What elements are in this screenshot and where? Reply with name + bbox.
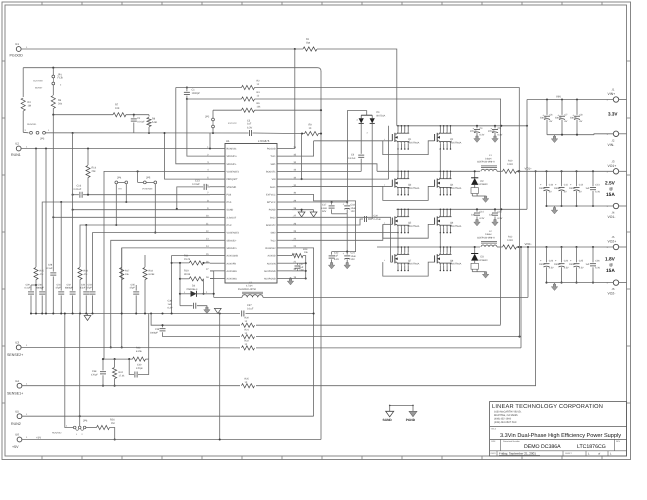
svg-text:15A: 15A [606,192,615,198]
pin 28 PGND [277,209,292,211]
svg-text:DATE: DATE [491,452,497,455]
svg-text:ITH1: ITH1 [227,201,233,204]
wire VO1 sense riser x519.5 [519,171,521,336]
svg-text:6800pF: 6800pF [36,287,44,290]
capacitor C31 [60,202,62,291]
ground below C14 [474,220,480,226]
svg-text:JP3: JP3 [40,138,45,141]
svg-text:100uF: 100uF [569,263,576,266]
wire SW2 pin25 line to row3 source rail [292,232,398,234]
svg-text:DEMO DC386A: DEMO DC386A [524,444,561,450]
svg-text:E3: E3 [16,341,20,345]
svg-text:VIN: VIN [272,178,276,181]
svg-text:VO1-: VO1- [608,215,616,219]
svg-text:4: 4 [384,138,385,141]
transistor Q3 [397,171,399,176]
svg-text:330uF: 330uF [555,117,562,120]
wire PGND pin28 line [292,209,314,211]
svg-text:4.7uH: 4.7uH [246,285,253,288]
pin 14 SENSE2+ [210,247,225,249]
wire FCB rail y114.7 [53,114,113,116]
diode D4 CMDSH-3 [180,293,191,295]
wire RUN2 E5 line [22,415,314,417]
svg-text:JP5: JP5 [146,176,151,179]
svg-text:J3: J3 [612,160,615,164]
svg-text:EXTVCC: EXTVCC [228,122,237,125]
svg-text:Friday, September 21, 2001: Friday, September 21, 2001 [499,452,536,456]
svg-text:SENSE1+: SENSE1+ [7,391,23,395]
svg-text:SW2: SW2 [270,232,276,235]
capacitor C22 [331,252,333,255]
svg-text:VOSENSE2: VOSENSE2 [227,232,240,235]
capacitor C11 [560,170,562,172]
pin 8 ITH1 [210,201,225,203]
wire gate feed [383,223,393,225]
svg-text:BAT54A: BAT54A [377,115,386,118]
title block [490,402,627,457]
svg-text:2.5V: 2.5V [549,267,554,270]
svg-text:T-G1: T-G1 [270,155,276,158]
resistor R26 [86,427,97,429]
svg-text:C28: C28 [48,264,53,267]
wire x219.7 riser 5V [219,314,221,440]
svg-text:3.3V: 3.3V [608,112,618,117]
resistor R5 [242,108,255,112]
svg-text:FDS7764A: FDS7764A [408,141,420,144]
svg-text:BOOST1: BOOST1 [266,170,276,173]
connector J2 VIN- [613,131,618,136]
svg-text:10V: 10V [351,258,356,261]
ground below C4 [474,136,480,142]
pin 25 SW2 [277,232,292,234]
wire comp array rail y313.5 [31,313,240,315]
svg-text:SENSE1+: SENSE1+ [227,155,238,158]
pin 11 ITH2 [210,224,225,226]
wire FREQSET pin5 riser [165,133,211,179]
transistor Q4 [439,171,441,176]
pin 23 RUN/SS2 [277,247,292,249]
svg-text:FDS7764A: FDS7764A [450,187,462,190]
svg-text:6.3V: 6.3V [498,134,503,137]
svg-text:B-G2: B-G2 [270,216,276,219]
svg-text:50V: 50V [322,210,327,213]
wire gate feed [292,185,392,187]
pin 33 BOOST1 [277,170,292,172]
resistor R21 [242,335,255,339]
svg-text:C15: C15 [498,210,503,213]
wire AUXVIN pin21 line [292,262,306,264]
wire BOOST1 pin33 line [292,170,361,172]
wire R23 divider rail [104,358,133,360]
capacitor C12 [575,170,577,172]
svg-text:FDS7764A: FDS7764A [450,141,462,144]
svg-text:PGND: PGND [269,209,276,212]
pin 34 SW1 [277,163,292,165]
capacitor C14 row3 bypass [476,209,478,211]
op-amp U1 LTC1876 controller IC [225,144,277,284]
svg-text:1uF: 1uF [247,123,252,126]
svg-text:SENSE2+: SENSE2+ [7,353,23,357]
svg-text:1M: 1M [28,104,31,107]
svg-text:CUSTOM: CUSTOM [33,80,43,83]
svg-text:VO2-: VO2- [608,292,616,296]
wire SENSE1+ pin2 riser [187,99,210,156]
capacitor C10 [545,170,547,172]
wire 3.3VOUT pin10 line [53,216,210,218]
resistor R9 [305,132,319,136]
svg-text:UPS840: UPS840 [479,183,489,186]
svg-text:4V: 4V [549,190,552,193]
svg-text:FDS7764A: FDS7764A [450,225,462,228]
wire row3 to SW2 verticals [397,233,399,247]
wire SW2 rail [377,246,480,248]
ground below C22 [328,263,334,269]
connector J6 VO2- [613,280,618,285]
wire VO2 rail to J5 [518,246,613,248]
svg-text:(408) 432-1900: (408) 432-1900 [494,418,512,421]
ground symbol SGND [389,405,391,411]
inductor L2 [481,245,497,247]
wire gate loop to second fet [383,186,435,200]
wire INTVCC riser to D1 anchor [347,111,366,202]
wire INTVCC pin29 line [292,201,347,203]
svg-text:JP4: JP4 [117,176,122,179]
transistor Q1 [397,126,399,131]
svg-text:1uF: 1uF [586,263,591,266]
svg-text:FSLB2520-4R7M: FSLB2520-4R7M [238,288,256,291]
svg-text:E1: E1 [16,42,20,46]
svg-text:C25: C25 [579,259,584,262]
svg-text:47pF: 47pF [56,287,62,290]
wire FCB pin7 line [83,194,210,196]
capacitor C16 series on FCB [79,192,81,198]
svg-text:INTVCC: INTVCC [267,201,276,204]
wire gate loop to second fet [383,141,435,155]
pin 5 FREQSET [210,178,225,180]
jumper JP6 [65,314,74,428]
svg-text:0.47uF: 0.47uF [374,218,382,221]
wire RUN/SS2 pin23 to RUN2 line [292,248,314,416]
resistor R6 [52,85,54,95]
svg-text:C29: C29 [26,283,31,286]
pin 27 B-G2 [277,216,292,218]
wire L3 output to right nest [263,296,528,298]
svg-text:6.3V: 6.3V [595,267,600,270]
wire SW1 pin34 jog [292,164,377,172]
wire TG1 gate route [292,141,314,156]
svg-text:C31: C31 [57,283,62,286]
ground pgnd open 1 [301,210,303,212]
resistor R2 [242,85,255,89]
diode D1 BAT54A dual [361,114,372,116]
svg-text:1uF: 1uF [471,214,476,217]
wire D1 cathode right down [371,123,373,219]
wire intvcc rail drop to extvcc rail [346,214,348,252]
pin 3 SENSE1- [210,163,225,165]
svg-text:10K: 10K [115,107,120,110]
svg-text:AUXPGND: AUXPGND [264,278,276,281]
capacitor C21 [346,252,348,255]
svg-text:FREQSET: FREQSET [227,178,239,181]
resistor R20 [242,323,255,327]
resistor R25 [242,384,255,388]
wire R21 line VO1 sense [163,336,241,338]
jumper JP1 FCB select [52,68,54,75]
wire row1 to SW1 verticals [397,149,399,171]
transistor Q2 [439,126,441,131]
svg-text:4: 4 [384,183,385,186]
svg-text:E4: E4 [16,379,20,383]
terminal E3 [16,345,21,350]
ground legend bracket [390,404,413,406]
ground auxpgnd gray arrow [287,279,293,285]
svg-text:100uF: 100uF [539,263,546,266]
svg-text:SW1: SW1 [270,163,276,166]
resistor R8 [148,115,150,117]
svg-text:SENSE2-: SENSE2- [227,239,237,242]
svg-text:LINEAR TECHNOLOGY CORPORATION: LINEAR TECHNOLOGY CORPORATION [492,404,603,410]
svg-text:0.01uF: 0.01uF [137,120,145,123]
pin 18 AUXSWG [210,277,225,279]
capacitor C25 [575,246,577,248]
svg-text:J2: J2 [612,138,615,142]
svg-text:4V: 4V [564,190,567,193]
capacitor C37 series on rail [241,311,243,317]
capacitor C6 [546,98,548,100]
resistor R18b array [144,255,146,267]
capacitor C15 row3 bypass [494,209,496,211]
svg-text:AUXSWG: AUXSWG [227,278,238,281]
wire gate loop to second fet [383,224,435,238]
svg-text:E6: E6 [16,433,20,437]
capacitor C9 [358,154,364,156]
wire SENSE1+ E4 line [22,385,240,387]
svg-text:C39: C39 [155,328,160,331]
resistor R14 [87,149,89,166]
resistor R15 [35,149,37,268]
wire STBYMD pin6 line with C13 [207,186,210,188]
svg-text:470pF: 470pF [136,367,143,370]
svg-text:VOSENSE1: VOSENSE1 [227,170,240,173]
wire AUXSWG pins 17 18 join [210,270,214,272]
capacitor C20 [363,216,365,222]
svg-text:VO2+: VO2+ [608,240,617,244]
capacitor C30 [41,267,43,291]
pin 31 B-G1 [277,186,292,188]
svg-text:U1: U1 [226,139,230,143]
pin 35 T-G1 [277,155,292,157]
wire SENSE2+ pin14 line [122,248,210,348]
ground dark arrow aux [204,307,210,313]
svg-text:6.3V: 6.3V [480,134,485,137]
svg-text:BOOST2: BOOST2 [266,224,276,227]
capacitor C13 [592,170,594,172]
svg-text:0.1uF: 0.1uF [247,307,254,310]
diode D2 UPS840 [474,171,476,178]
wire SENSE2+ E3 line [21,346,240,349]
svg-text:TITLE: TITLE [491,428,497,431]
svg-text:C10: C10 [549,183,554,186]
svg-text:0.8uH: 0.8uH [485,157,492,160]
svg-text:VO2+: VO2+ [525,242,533,246]
wire gate feed [314,140,393,142]
svg-text:AUXSD: AUXSD [267,255,275,258]
svg-text:C24: C24 [564,259,569,262]
svg-text:RUN/SS1: RUN/SS1 [227,148,238,151]
svg-text:RUN/SS1: RUN/SS1 [27,123,37,126]
pin 26 BOOST2 [277,224,292,226]
svg-text:@: @ [609,186,613,191]
wire TG2 gate route row3 [292,224,383,240]
svg-text:RUN/SS2: RUN/SS2 [52,432,62,435]
wire D1 cathode left to C9 to BOOST1 [360,123,362,153]
svg-text:VO1+: VO1+ [608,164,617,168]
ground below C15 [492,220,498,226]
wire EXTVCC pin30 to C22 rail [292,194,356,251]
transistor Q6 [439,209,441,214]
capacitor C8 [576,98,578,100]
svg-text:STBYMD: STBYMD [227,186,237,189]
svg-text:0.8uH: 0.8uH [485,233,492,236]
capacitor C33 [92,285,94,291]
svg-text:17.4k: 17.4k [119,375,126,378]
svg-text:AUXVFB: AUXVFB [227,262,237,265]
wire JP1 column x53.3 down [52,115,54,265]
svg-text:VIN-: VIN- [608,143,615,147]
svg-text:FDS7764A: FDS7764A [408,187,420,190]
pin 29 INTVCC [277,201,292,203]
pin 1 RUN/SS1 [210,148,225,150]
svg-text:J5: J5 [612,235,615,239]
svg-text:ITH: ITH [118,188,122,191]
svg-text:FCB: FCB [58,77,63,80]
svg-text:Opt: Opt [306,42,310,45]
svg-text:47pF: 47pF [130,287,136,290]
terminal E2 [16,146,21,151]
svg-text:3.3VOUT: 3.3VOUT [227,216,237,219]
wire AUXSGND pin15 column [172,256,210,314]
svg-text:VIN: VIN [556,95,561,99]
svg-text:100uF: 100uF [554,263,561,266]
wire SENSE1- pin3 riser [176,88,210,164]
resistor R16 [79,266,81,268]
svg-text:B-G1: B-G1 [270,186,276,189]
wire AUXSD corner down to aux pins [303,256,306,279]
svg-text:6.3V: 6.3V [480,217,485,220]
ground sgnd open on rail [84,316,91,321]
svg-text:6V: 6V [550,120,553,123]
svg-text:EXTVCC: EXTVCC [266,193,276,196]
svg-text:SENSE2+: SENSE2+ [227,247,238,250]
resistor R12 sense [497,246,503,248]
svg-text:J4: J4 [612,211,615,215]
svg-text:J1: J1 [612,88,615,92]
wire VIN pin32 line [292,178,389,180]
resistor R10 sense [497,170,503,172]
wire ITH1 pin8 line [42,202,210,267]
svg-text:4V: 4V [579,190,582,193]
connector J3 VO1+ [613,169,618,174]
svg-text:FDS7764A: FDS7764A [408,263,420,266]
svg-text:AUXSGND: AUXSGND [227,255,239,258]
capacitor C28 [52,265,54,272]
pin 19 AUXPGND [277,277,292,279]
wire VIN left rail y67.7 [23,67,317,69]
ground VO2 caps [554,283,556,285]
capacitor C23 [545,246,547,248]
connector J1 VIN+ [613,97,618,102]
pin 17 AUXSWG [210,270,225,272]
inductor L3 [214,296,242,298]
svg-text:J6: J6 [612,287,615,291]
capacitor C24 [560,246,562,248]
svg-text:E2: E2 [16,142,20,146]
svg-text:100uF: 100uF [554,187,561,190]
svg-text:8.25k: 8.25k [136,350,143,353]
svg-text:PGOOD: PGOOD [10,54,24,58]
svg-text:C33: C33 [88,283,93,286]
svg-text:SHEET: SHEET [565,452,572,455]
svg-text:PGND: PGND [406,418,416,422]
inductor L1 [481,169,497,171]
svg-text:6V: 6V [580,120,583,123]
svg-text:SENSE1-: SENSE1- [227,163,237,166]
svg-text:Document Number: Document Number [503,440,520,443]
resistor R4 [22,68,24,97]
svg-text:FDS7764A: FDS7764A [450,263,462,266]
wire VIN rail row3 [388,126,390,179]
svg-text:1000pF: 1000pF [150,332,158,335]
svg-text:REV: REV [616,440,621,443]
wire VO1 rail to J3 [518,170,613,172]
wire RUN/SS1 line y133 [45,132,248,134]
svg-text:270uF: 270uF [488,130,495,133]
capacitor C29 [30,285,32,291]
svg-text:FCB: FCB [227,193,232,196]
ground input caps [554,135,556,137]
svg-text:VOSENSE: VOSENSE [142,188,153,191]
wire RUN1 E2 to pin1 [21,148,210,150]
wire VO2 cap ground rail to J6 [547,282,614,284]
resistor R23 [133,357,146,361]
svg-text:RUN1: RUN1 [11,153,21,157]
capacitor C34 [110,239,112,241]
pin 20 AUXPGND [277,270,292,272]
wire ITH2 pin11 line [80,225,210,267]
connector J5 VO2+ [613,244,618,249]
svg-text:LTC1876: LTC1876 [258,139,270,143]
wire gate feed [391,261,393,263]
svg-text:0.002: 0.002 [507,239,514,242]
svg-text:PGOOD: PGOOD [267,148,276,151]
wire R20 line VIN sense [151,314,240,326]
capacitor C27 [297,263,299,265]
wire AUXPGND pin20 line [292,270,306,272]
wire BG2 gate route row4 [292,217,391,262]
svg-text:C32: C32 [67,283,72,286]
svg-text:8.06k: 8.06k [149,273,156,276]
svg-text:0.1uF: 0.1uF [47,267,53,270]
capacitor C13 [203,184,205,190]
capacitor C7 [561,98,563,100]
svg-text:1000pF: 1000pF [192,92,201,95]
resistor R3 [242,97,255,101]
wire row3 top rail [397,208,528,210]
resistor R24 [114,359,116,367]
jumper JP5 vosense [137,171,139,182]
svg-text:0.47uF: 0.47uF [348,157,356,160]
svg-text:100uF: 100uF [539,187,546,190]
